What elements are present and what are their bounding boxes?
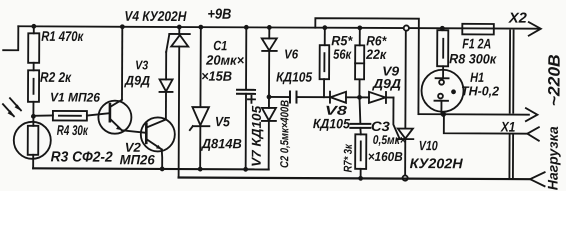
svg-text:V1 МП26: V1 МП26 xyxy=(50,90,101,104)
node R2/R3/R4 junction xyxy=(31,114,36,119)
svg-text:R3 СФ2-2: R3 СФ2-2 xyxy=(51,149,113,165)
wire V4 anode down to lower rail xyxy=(178,47,181,178)
svg-text:R1 470к: R1 470к xyxy=(41,28,84,44)
svg-text:V7 КД105: V7 КД105 xyxy=(249,105,264,167)
wire gate bracket xyxy=(315,18,419,114)
node V10 anode open circle on rail xyxy=(404,25,409,30)
svg-text:Д9Д: Д9Д xyxy=(124,73,151,88)
svg-text:V5: V5 xyxy=(215,114,231,129)
diode V6 xyxy=(268,27,270,38)
resistor R7 xyxy=(355,134,366,169)
svg-text:20мк×: 20мк× xyxy=(205,53,244,68)
svg-text:V10: V10 xyxy=(419,138,438,153)
svg-text:×160В: ×160В xyxy=(368,149,403,164)
svg-text:КУ202Н: КУ202Н xyxy=(410,155,464,171)
fuse F1 xyxy=(462,24,494,35)
svg-text:Нагрузка: Нагрузка xyxy=(545,126,561,190)
transistor V2 xyxy=(141,117,175,151)
connector X1 socket xyxy=(527,127,539,141)
svg-text:R2 2к: R2 2к xyxy=(40,69,72,85)
wire to X1 socket xyxy=(444,114,528,133)
wire bottom common rail xyxy=(33,168,268,169)
wire top supply rail xyxy=(18,26,539,28)
connector neutral pin arrow xyxy=(526,108,538,121)
svg-text:0,5мк×: 0,5мк× xyxy=(373,133,407,147)
svg-text:КД105: КД105 xyxy=(276,69,313,84)
connector X2 pin arrow xyxy=(529,22,541,36)
svg-text:X2: X2 xyxy=(508,11,527,27)
svg-text:X1: X1 xyxy=(500,119,516,135)
zener V5 xyxy=(199,27,201,107)
svg-text:V4 КУ202Н: V4 КУ202Н xyxy=(124,8,187,24)
node V10 cathode open circle xyxy=(402,175,407,180)
svg-text:ТН-0,2: ТН-0,2 xyxy=(461,83,500,98)
photoresistor R3 xyxy=(32,116,34,125)
capacitor C2 xyxy=(269,96,290,98)
thyristor V10 xyxy=(393,98,399,139)
wire V1 collector xyxy=(121,27,123,100)
diode V9 xyxy=(359,96,368,98)
connector boundary lines xyxy=(509,31,513,179)
svg-text:С1: С1 xyxy=(213,38,227,53)
svg-text:+9В: +9В xyxy=(207,7,231,23)
wire bottom load rail xyxy=(179,178,530,180)
diode V3 xyxy=(165,92,167,119)
transistor V1 xyxy=(98,101,131,134)
resistor R5 xyxy=(322,25,327,30)
diode V8 xyxy=(329,92,331,103)
svg-text:С2 0,5мк×400В: С2 0,5мк×400В xyxy=(279,100,291,168)
connector load socket xyxy=(530,172,545,186)
svg-text:22к: 22к xyxy=(365,47,387,62)
wire V2 emitter to rail xyxy=(161,149,164,169)
svg-text:R7* 3к: R7* 3к xyxy=(343,143,355,172)
wire +9V input stub xyxy=(3,26,18,50)
thyristor V4 xyxy=(166,34,169,52)
wire R1-R2 xyxy=(33,63,35,70)
svg-text:~220В: ~220В xyxy=(545,54,563,106)
node R1 top xyxy=(31,24,36,29)
capacitor C1 xyxy=(245,27,247,89)
capacitor C3 xyxy=(359,97,360,123)
svg-text:×15В: ×15В xyxy=(201,69,232,84)
svg-text:КД105: КД105 xyxy=(313,116,351,131)
svg-text:V3: V3 xyxy=(135,58,148,72)
resistor R6 xyxy=(357,25,362,30)
svg-text:F1 2А: F1 2А xyxy=(462,35,491,51)
resistor R8 xyxy=(440,26,445,31)
svg-text:R4 30к: R4 30к xyxy=(57,122,89,138)
light arrows xyxy=(3,98,21,116)
wire neutral to connector xyxy=(418,113,528,116)
svg-text:С3: С3 xyxy=(371,119,391,134)
svg-text:R8 300к: R8 300к xyxy=(449,51,497,66)
svg-text:Д9Д: Д9Д xyxy=(372,76,402,91)
svg-text:V6: V6 xyxy=(284,47,299,62)
svg-text:Д814В: Д814В xyxy=(201,136,242,151)
svg-text:МП26: МП26 xyxy=(120,152,156,167)
svg-text:56к: 56к xyxy=(333,47,352,62)
resistor R2 xyxy=(28,70,39,102)
diode V7 xyxy=(268,97,270,108)
neon lamp H1 xyxy=(421,70,463,112)
wire V1 emitter to V2 base xyxy=(122,130,147,133)
resistor R4 xyxy=(33,114,53,117)
resistor R1 xyxy=(33,26,35,33)
